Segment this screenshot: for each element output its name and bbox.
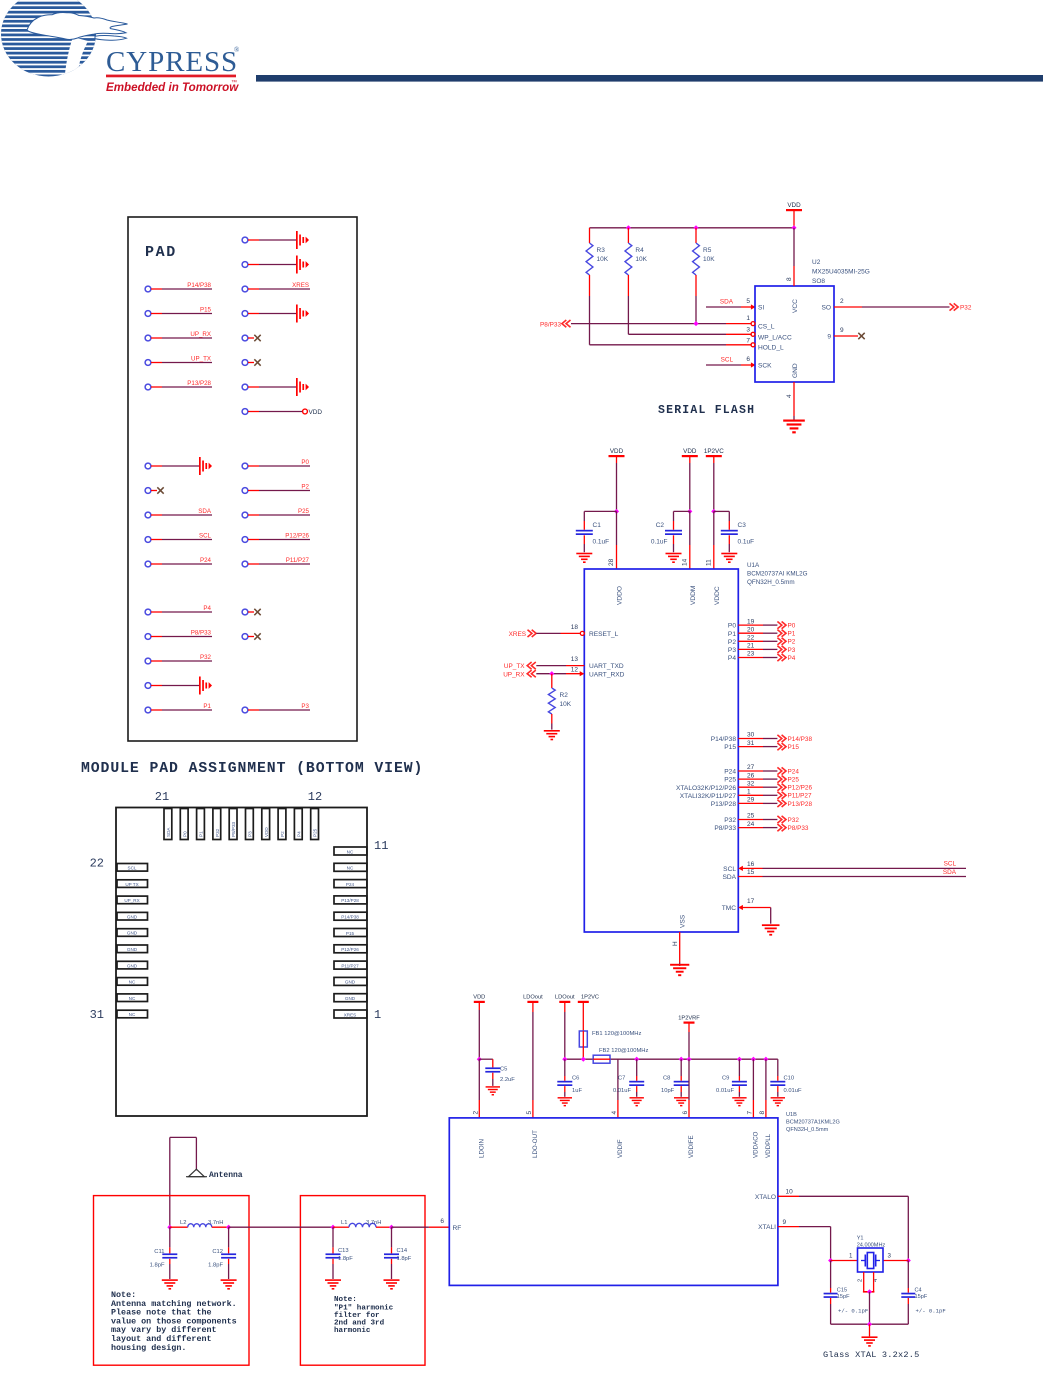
capacitor C11: [150, 1227, 178, 1279]
junction C7: [634, 1057, 639, 1062]
svg-text:U1B: U1B: [786, 1112, 797, 1118]
svg-text:XRES: XRES: [344, 1012, 357, 1017]
svg-text:SCK: SCK: [758, 363, 772, 370]
svg-text:UART_RXD: UART_RXD: [589, 671, 625, 678]
svg-text:1P2VC: 1P2VC: [704, 448, 724, 455]
svg-text:4: 4: [611, 1111, 618, 1115]
svg-text:SDA: SDA: [943, 869, 957, 876]
svg-text:22: 22: [747, 635, 755, 642]
U1A pin 1 P11/P27: [680, 789, 812, 800]
pin 12 number: [308, 790, 322, 804]
svg-text:XRES: XRES: [509, 631, 526, 638]
svg-text:16: 16: [747, 861, 755, 868]
svg-text:SO: SO: [821, 305, 831, 312]
svg-text:VDD: VDD: [610, 448, 624, 455]
junction xtal gnd bus: [867, 1322, 872, 1327]
U2 pin 5 number: [746, 298, 750, 305]
wire Y1 ground pins: [863, 1272, 875, 1292]
header bar: [256, 75, 1043, 82]
wire R4 to WP_L: [628, 296, 751, 334]
svg-text:P1: P1: [203, 703, 211, 710]
wire power rail (U1B): [565, 1058, 778, 1060]
svg-text:XTALI: XTALI: [758, 1224, 776, 1231]
junction C8: [679, 1057, 684, 1062]
svg-text:15: 15: [747, 869, 755, 876]
module pad stub left ground: [145, 677, 212, 695]
svg-text:C8: C8: [663, 1076, 670, 1082]
svg-text:P25: P25: [724, 777, 736, 784]
U1A pin 14 number: [681, 558, 688, 566]
capacitor C6: [557, 1059, 582, 1097]
svg-text:P8/P33: P8/P33: [540, 321, 561, 328]
U1A designator: [747, 562, 808, 586]
svg-text:3: 3: [888, 1253, 892, 1260]
svg-text:10K: 10K: [635, 256, 647, 263]
svg-text:22: 22: [90, 857, 104, 871]
glass xtal caption: [823, 1350, 919, 1360]
svg-text:GND: GND: [345, 980, 356, 985]
svg-text:SCL: SCL: [199, 533, 212, 540]
svg-text:+/- 0.1pF: +/- 0.1pF: [916, 1307, 946, 1314]
module top pad 17 P8/P33: [229, 809, 237, 840]
svg-text:L1: L1: [341, 1220, 347, 1226]
svg-text:1P2VC: 1P2VC: [581, 995, 599, 1001]
svg-text:P4: P4: [728, 655, 736, 662]
module pad stub right ground: [242, 305, 309, 323]
U1A pin 26 P25: [724, 772, 799, 783]
capacitor C1: [576, 511, 617, 552]
power LDOout (rail): [555, 995, 575, 1060]
IC U2 MX25U4035MI-25G: [751, 286, 834, 382]
module pad stub left SDA: [145, 508, 212, 518]
module pad stub right no-connect: [242, 609, 261, 615]
svg-text:™: ™: [231, 79, 237, 86]
svg-text:C4: C4: [915, 1288, 922, 1294]
resistor R5: [693, 228, 716, 296]
svg-text:2.2uF: 2.2uF: [500, 1077, 515, 1083]
capacitor C3: [714, 511, 754, 552]
svg-text:29: 29: [747, 797, 755, 804]
wire SDA to SI: [706, 304, 756, 309]
U1A pin 31 P15: [724, 740, 799, 751]
svg-text:SO8: SO8: [812, 278, 825, 285]
svg-text:TMC: TMC: [722, 905, 737, 912]
node P8/P33 input: [540, 320, 570, 328]
svg-text:32: 32: [747, 780, 755, 787]
module right pad 4 P11/P27: [334, 961, 367, 969]
svg-text:NC: NC: [129, 996, 136, 1001]
svg-text:10: 10: [786, 1189, 794, 1196]
svg-text:LDOIN: LDOIN: [479, 1139, 486, 1158]
capacitor C15: [824, 1261, 851, 1325]
node UP_RX input: [503, 670, 536, 678]
module left pad 29 NC: [117, 978, 148, 986]
svg-text:24: 24: [747, 821, 755, 828]
module left pad 24 UP_RX: [117, 896, 148, 904]
ground (C3): [721, 553, 737, 563]
module pad stub right P11/P27: [242, 557, 310, 567]
svg-text:SDA: SDA: [166, 827, 171, 837]
svg-text:XTALI32K/P11/P27: XTALI32K/P11/P27: [680, 793, 737, 800]
module left pad 28 GND: [117, 961, 148, 969]
module top pad 15 VDD: [262, 809, 270, 840]
svg-text:UP_TX: UP_TX: [191, 356, 211, 363]
svg-text:P11/P27: P11/P27: [286, 557, 310, 564]
svg-text:RESET_L: RESET_L: [589, 631, 619, 638]
svg-text:L2: L2: [180, 1220, 186, 1226]
wire pin9 nc: [834, 335, 858, 337]
svg-text:harmonic: harmonic: [334, 1327, 371, 1335]
junction C3: [711, 509, 716, 514]
svg-text:P15: P15: [346, 931, 355, 936]
capacitor C13: [326, 1227, 354, 1279]
svg-text:10pF: 10pF: [661, 1088, 675, 1094]
svg-text:31: 31: [90, 1008, 104, 1022]
wire VDDC drop: [713, 511, 715, 569]
svg-text:C10: C10: [784, 1076, 795, 1082]
svg-text:11: 11: [705, 559, 712, 566]
svg-text:VDDC: VDDC: [714, 586, 721, 605]
svg-text:1: 1: [747, 789, 751, 796]
module right pad 1 XRES: [334, 1010, 367, 1018]
svg-text:20: 20: [747, 626, 755, 633]
module pad stub right ground: [242, 256, 309, 274]
junction VDDACO: [751, 1057, 756, 1062]
svg-text:P0: P0: [301, 459, 309, 466]
svg-text:1: 1: [746, 315, 750, 322]
svg-text:23: 23: [747, 651, 755, 658]
svg-text:GND: GND: [127, 963, 138, 968]
svg-text:C6: C6: [572, 1076, 579, 1082]
resistor R3: [586, 228, 609, 296]
Cypress logo wordmark: [106, 46, 240, 94]
svg-text:P1: P1: [788, 631, 796, 638]
U1A pin H number: [672, 941, 679, 946]
svg-text:0.01uF: 0.01uF: [784, 1088, 803, 1094]
svg-text:UP TX: UP TX: [125, 882, 138, 887]
module pad stub left P14/P38: [145, 282, 212, 292]
ground (C2): [666, 553, 682, 563]
svg-text:P13/P28: P13/P28: [711, 801, 737, 808]
power 1P2VC (C3): [704, 448, 724, 512]
svg-text:21: 21: [747, 643, 755, 650]
svg-text:HOLD_L: HOLD_L: [758, 345, 784, 352]
crystal Y1 24.000MHz: [858, 1248, 884, 1272]
svg-text:1.8pF: 1.8pF: [397, 1256, 412, 1262]
U1A pin 12 number: [571, 666, 579, 673]
wire VDD rail: [590, 227, 795, 229]
svg-text:LDO-OUT: LDO-OUT: [532, 1130, 539, 1158]
U1B pin 5 number: [526, 1111, 533, 1115]
svg-text:11: 11: [374, 839, 388, 853]
note antenna matching: [111, 1290, 237, 1353]
svg-text:6: 6: [682, 1111, 689, 1115]
svg-text:P15: P15: [724, 744, 736, 751]
svg-text:30: 30: [747, 732, 755, 739]
svg-text:12: 12: [308, 790, 322, 804]
U1A pin 23 P4: [728, 651, 796, 662]
ground (C11): [162, 1279, 178, 1289]
U1B pin 7 number: [746, 1111, 753, 1115]
svg-text:UP_TX: UP_TX: [504, 663, 525, 670]
ground (C7): [630, 1097, 644, 1106]
module pad stub left SCL: [145, 533, 212, 543]
junction C1: [614, 509, 619, 514]
U1A pin 18 number: [571, 624, 579, 631]
module top pad 19 P1: [197, 809, 205, 840]
svg-text:FB1 120@100MHz: FB1 120@100MHz: [592, 1031, 641, 1037]
svg-text:0.1uF: 0.1uF: [593, 539, 610, 546]
capacitor C2: [651, 511, 690, 552]
svg-text:7: 7: [746, 338, 750, 345]
svg-text:C9: C9: [722, 1076, 729, 1082]
svg-text:P8/P33: P8/P33: [191, 630, 212, 637]
svg-text:RF: RF: [453, 1225, 462, 1232]
svg-text:VDD: VDD: [787, 202, 801, 209]
svg-text:4: 4: [786, 394, 793, 398]
svg-text:MODULE PAD ASSIGNMENT (BOTTOM: MODULE PAD ASSIGNMENT (BOTTOM VIEW): [81, 761, 423, 777]
wire SO to P32: [834, 306, 950, 308]
ferrite bead FB1: [579, 1031, 641, 1059]
module left pad 26 GND: [117, 929, 148, 937]
pin 31 number: [90, 1008, 104, 1022]
module right pad 9 P24: [334, 880, 367, 888]
svg-text:P25: P25: [298, 508, 310, 515]
wire R3 to HOLD_L: [590, 296, 752, 345]
junction C9: [737, 1057, 742, 1062]
wire XTALI: [778, 1227, 831, 1261]
wire XTALO: [778, 1196, 909, 1260]
svg-text:1: 1: [374, 1008, 381, 1022]
svg-text:UART_TXD: UART_TXD: [589, 663, 624, 670]
svg-text:C13: C13: [338, 1248, 349, 1254]
power 1P2VRF: [678, 1015, 700, 1059]
ground (C6): [558, 1097, 572, 1106]
svg-text:LDOout: LDOout: [523, 995, 543, 1001]
svg-text:2: 2: [472, 1111, 479, 1115]
svg-text:Y1: Y1: [857, 1236, 864, 1242]
svg-text:P4: P4: [296, 831, 301, 837]
module pad stub left P1: [145, 703, 212, 713]
svg-text:10K: 10K: [703, 256, 715, 263]
svg-text:1: 1: [849, 1253, 853, 1260]
svg-text:XRES: XRES: [292, 282, 309, 289]
U1A pin 13 number: [571, 656, 579, 663]
svg-text:6: 6: [746, 356, 750, 363]
Y1 pin 2 number: [858, 1279, 864, 1282]
wire xtal pin1: [831, 1260, 858, 1262]
svg-text:P3: P3: [728, 647, 736, 654]
module top pad 16 P3: [246, 809, 254, 840]
U1A pin 32 P12/P26: [676, 780, 812, 791]
svg-text:P2: P2: [728, 639, 736, 646]
module left pad 27 GND: [117, 945, 148, 953]
svg-text:P12/P26: P12/P26: [788, 785, 813, 792]
module pad stub right P3: [242, 703, 310, 713]
svg-text:C2: C2: [656, 522, 665, 529]
pin 1 number: [374, 1008, 381, 1022]
svg-text:Note:: Note:: [334, 1296, 357, 1304]
PAD box title: [145, 244, 177, 261]
svg-text:VDDM: VDDM: [690, 586, 697, 605]
svg-text:P1: P1: [728, 631, 736, 638]
capacitor C9: [716, 1059, 747, 1097]
svg-text:1.8pF: 1.8pF: [208, 1263, 223, 1269]
svg-text:28: 28: [608, 558, 615, 566]
svg-text:25: 25: [747, 813, 755, 820]
module pad stub left P13/P28: [145, 380, 212, 390]
U1A UART_RXD label: [589, 671, 625, 678]
node P32 output: [950, 303, 972, 311]
svg-text:P15: P15: [788, 744, 800, 751]
U1A pin 28 number: [608, 558, 615, 566]
U1B designator: [786, 1112, 840, 1133]
harmonic filter box: [300, 1196, 425, 1366]
U1B pin 6 number: [682, 1111, 689, 1115]
module pad stub left no-connect: [145, 487, 164, 493]
svg-text:UP_RX: UP_RX: [503, 671, 525, 678]
svg-text:P24: P24: [200, 557, 212, 564]
IC U1B BCM20737: [449, 1118, 778, 1286]
wire VCC pin8: [793, 228, 795, 286]
U1A pin 30 P14/P38: [711, 732, 813, 743]
svg-text:P8/P33: P8/P33: [714, 825, 736, 832]
svg-text:10K: 10K: [560, 701, 572, 708]
svg-text:VDD: VDD: [309, 409, 323, 416]
U1A pin 11 number: [705, 559, 712, 566]
wire VDDIF drop: [617, 1059, 619, 1118]
PAD box outline: [128, 217, 357, 741]
U1A pin 21 P3: [728, 643, 796, 654]
module right pad 3 GND: [334, 977, 367, 985]
svg-text:24.000MHz: 24.000MHz: [857, 1242, 886, 1248]
module pad assignment caption: [81, 761, 423, 777]
svg-text:UP_RX: UP_RX: [124, 898, 139, 903]
wire VDDPLL drop: [765, 1059, 767, 1118]
module pad stub left UP_RX: [145, 331, 212, 341]
svg-text:VDD: VDD: [683, 448, 697, 455]
junction 1P2VRF: [686, 1057, 691, 1062]
power LDOout (pin5): [523, 995, 543, 1118]
node SDA (flash): [720, 299, 734, 306]
capacitor C12: [208, 1227, 236, 1279]
module right pad 5 P12/P26: [334, 945, 367, 953]
U2 pin 1 number: [746, 315, 750, 322]
U1A TMC pin17: [722, 898, 771, 924]
module top pad 21 SDA: [164, 809, 172, 840]
svg-text:VCC: VCC: [792, 299, 799, 313]
module pad stub right ground: [242, 231, 309, 249]
module right pad 11 NC: [334, 847, 367, 855]
svg-text:13: 13: [571, 656, 579, 663]
module pad stub left ground: [145, 457, 212, 475]
svg-text:XTALO: XTALO: [755, 1194, 776, 1201]
capacitor C14: [384, 1227, 412, 1279]
U1A SDA pin15: [722, 869, 966, 881]
svg-text:NC: NC: [129, 980, 136, 985]
module right pad 7 P14/P38: [334, 912, 367, 920]
svg-text:15pF: 15pF: [837, 1294, 850, 1300]
svg-text:SERIAL FLASH: SERIAL FLASH: [658, 404, 755, 417]
module pad stub left P24: [145, 557, 212, 567]
svg-text:P0: P0: [728, 623, 736, 630]
pin 11 number: [374, 839, 388, 853]
module top pad 12 P25: [311, 809, 319, 840]
junction rail FB1: [581, 1057, 586, 1062]
Cypress logo globe: [0, 0, 128, 80]
svg-text:QFN32H_0.5mm: QFN32H_0.5mm: [747, 579, 795, 586]
power VDD (C1): [609, 448, 625, 512]
svg-text:2: 2: [840, 298, 844, 305]
module pad stub right P25: [242, 508, 310, 518]
svg-text:VDDIF: VDDIF: [617, 1139, 624, 1158]
svg-text:VDDIFE: VDDIFE: [688, 1135, 695, 1158]
Y1 pin 4 number: [873, 1278, 879, 1282]
svg-text:NC: NC: [347, 849, 354, 854]
svg-text:P14/P38: P14/P38: [187, 282, 211, 289]
no-connect U2 pin9: [858, 333, 864, 339]
svg-text:1.8pF: 1.8pF: [338, 1256, 353, 1262]
svg-text:P24: P24: [788, 768, 800, 775]
svg-text:SCL: SCL: [723, 866, 736, 873]
svg-text:C3: C3: [738, 522, 747, 529]
wire antenna net to filter: [229, 1226, 333, 1228]
svg-text:3: 3: [746, 327, 750, 334]
svg-text:R2: R2: [560, 692, 569, 699]
module top pad 14 P2: [278, 809, 286, 840]
svg-text:1.8pF: 1.8pF: [150, 1263, 165, 1269]
svg-text:P32: P32: [200, 654, 212, 661]
ferrite bead FB2: [593, 1048, 648, 1063]
power VDD (C2): [682, 448, 698, 512]
svg-text:31: 31: [747, 740, 755, 747]
svg-text:21: 21: [155, 790, 169, 804]
junction L1 left: [330, 1225, 335, 1230]
wire VDDACO drop: [752, 1059, 754, 1118]
module left pad 23 UP TX: [117, 880, 148, 888]
svg-text:P13/P28: P13/P28: [341, 898, 359, 903]
svg-text:P14/P38: P14/P38: [711, 736, 737, 743]
svg-text:SCL: SCL: [721, 357, 734, 364]
svg-text:P32: P32: [960, 305, 972, 312]
power VDD (U1B): [473, 995, 485, 1060]
svg-text:P12/P26: P12/P26: [341, 947, 359, 952]
svg-text:P3: P3: [788, 647, 796, 654]
resistor R2: [548, 674, 571, 730]
junction CS_L: [693, 321, 698, 326]
svg-text:0.01uF: 0.01uF: [716, 1088, 735, 1094]
wire gnd stub: [869, 1324, 871, 1336]
U1B pin 6 number (RF): [440, 1218, 444, 1225]
svg-text:7: 7: [746, 1111, 753, 1115]
svg-text:14: 14: [681, 558, 688, 566]
wire xtal ground bus: [831, 1323, 909, 1325]
svg-text:P32: P32: [788, 817, 800, 824]
capacitor C4: [901, 1261, 928, 1325]
svg-text:R4: R4: [635, 247, 644, 254]
ground (R2): [544, 730, 560, 740]
svg-text:SI: SI: [758, 305, 764, 312]
svg-text:GND: GND: [127, 947, 138, 952]
Y1 pin 3 number: [888, 1253, 892, 1260]
module pad stub right VDD: [242, 409, 322, 416]
svg-text:SDA: SDA: [720, 299, 734, 306]
ground (C13): [325, 1279, 341, 1289]
svg-text:FB2 120@100MHz: FB2 120@100MHz: [599, 1048, 648, 1054]
svg-text:VDDACO: VDDACO: [753, 1131, 760, 1158]
svg-text:VDDO: VDDO: [617, 586, 624, 605]
svg-text:GND: GND: [127, 914, 138, 919]
